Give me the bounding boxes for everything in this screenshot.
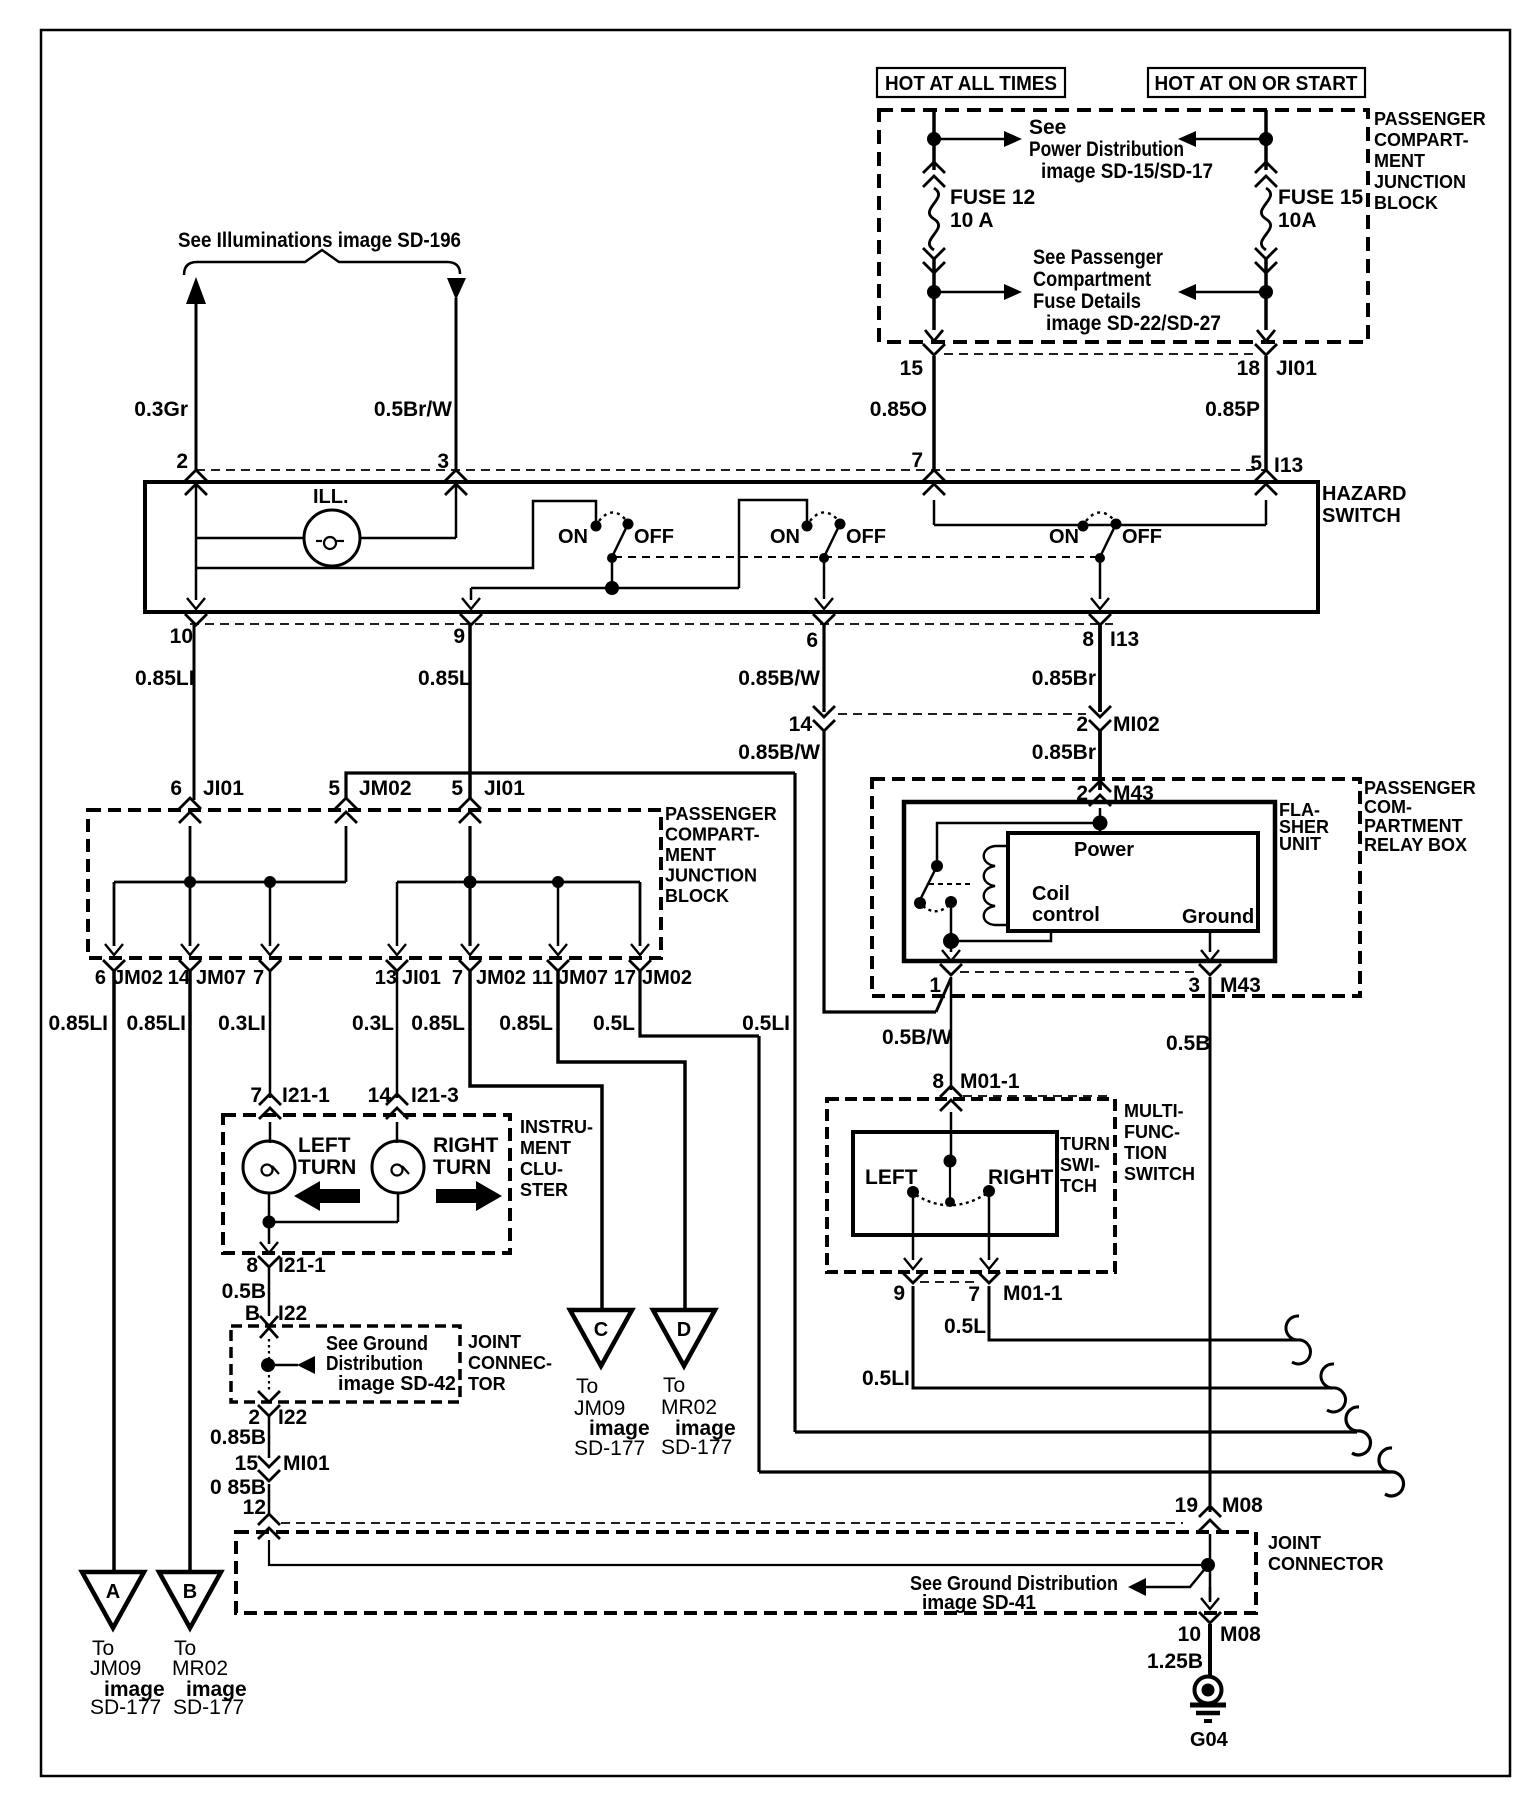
svg-text:I21-1: I21-1 — [282, 1084, 330, 1107]
svg-text:See Passenger: See Passenger — [1033, 246, 1163, 269]
svg-text:JI01: JI01 — [203, 777, 244, 800]
svg-text:MENT: MENT — [520, 1138, 571, 1158]
svg-text:0.85P: 0.85P — [1205, 398, 1260, 421]
svg-text:0.85B: 0.85B — [210, 1426, 266, 1449]
svg-text:COMPART-: COMPART- — [1374, 130, 1469, 150]
svg-text:TURN: TURN — [1060, 1134, 1110, 1154]
svg-text:image SD-15/SD-17: image SD-15/SD-17 — [1041, 160, 1213, 183]
svg-text:INSTRU-: INSTRU- — [520, 1117, 593, 1137]
svg-text:To: To — [663, 1374, 685, 1397]
svg-text:HOT AT ALL TIMES: HOT AT ALL TIMES — [885, 73, 1057, 95]
svg-text:ON: ON — [1049, 526, 1079, 548]
svg-text:0.3LI: 0.3LI — [218, 1012, 266, 1035]
svg-text:STER: STER — [520, 1180, 568, 1200]
svg-text:TCH: TCH — [1060, 1176, 1097, 1196]
svg-text:SD-177: SD-177 — [90, 1696, 161, 1719]
svg-text:0.85B/W: 0.85B/W — [738, 667, 820, 690]
svg-text:D: D — [677, 1319, 691, 1341]
svg-text:PARTMENT: PARTMENT — [1364, 816, 1463, 836]
svg-text:ON: ON — [770, 526, 800, 548]
svg-text:6: 6 — [806, 629, 818, 652]
svg-text:7: 7 — [968, 1283, 980, 1306]
svg-text:0.5B: 0.5B — [1166, 1032, 1210, 1055]
svg-text:0.85L: 0.85L — [411, 1012, 465, 1035]
svg-text:SD-177: SD-177 — [574, 1437, 645, 1460]
svg-text:2: 2 — [176, 450, 188, 473]
svg-text:0.85LI: 0.85LI — [126, 1012, 186, 1035]
svg-text:Compartment: Compartment — [1033, 268, 1151, 291]
svg-text:10: 10 — [1178, 1623, 1201, 1646]
svg-text:0.85L: 0.85L — [499, 1012, 553, 1035]
svg-text:5: 5 — [328, 777, 340, 800]
svg-text:image SD-41: image SD-41 — [922, 1592, 1036, 1614]
svg-text:RIGHT: RIGHT — [433, 1134, 499, 1157]
svg-text:JUNCTION: JUNCTION — [1374, 172, 1466, 192]
svg-text:14: 14 — [368, 1084, 392, 1107]
svg-text:12: 12 — [243, 1496, 266, 1519]
svg-text:9: 9 — [893, 1282, 905, 1305]
svg-text:JM02: JM02 — [359, 777, 412, 800]
svg-text:0.5B: 0.5B — [222, 1280, 266, 1303]
svg-text:Distribution: Distribution — [326, 1353, 423, 1375]
svg-text:image SD-42: image SD-42 — [338, 1373, 456, 1395]
svg-text:LEFT: LEFT — [865, 1166, 918, 1189]
svg-text:0.5Br/W: 0.5Br/W — [374, 398, 452, 421]
svg-text:19: 19 — [1175, 1494, 1198, 1517]
svg-text:MI02: MI02 — [1113, 713, 1160, 736]
svg-text:M08: M08 — [1220, 1623, 1261, 1646]
svg-text:MI01: MI01 — [283, 1452, 330, 1475]
svg-text:7: 7 — [911, 449, 923, 472]
svg-text:CONNECTOR: CONNECTOR — [1268, 1554, 1384, 1574]
svg-text:M01-1: M01-1 — [960, 1070, 1020, 1093]
svg-text:M01-1: M01-1 — [1003, 1282, 1063, 1305]
svg-text:OFF: OFF — [1122, 526, 1162, 548]
svg-text:1: 1 — [929, 974, 941, 997]
svg-text:8: 8 — [932, 1070, 944, 1093]
svg-text:JI01: JI01 — [1276, 357, 1317, 380]
svg-text:SWITCH: SWITCH — [1124, 1164, 1195, 1184]
svg-text:COMPART-: COMPART- — [665, 825, 760, 845]
svg-text:A: A — [106, 1581, 120, 1603]
svg-text:10: 10 — [170, 625, 193, 648]
svg-text:PASSENGER: PASSENGER — [1364, 778, 1476, 798]
svg-text:See: See — [1029, 116, 1066, 139]
svg-text:JM09: JM09 — [90, 1657, 141, 1680]
svg-text:TURN: TURN — [433, 1156, 491, 1179]
svg-text:15: 15 — [900, 357, 924, 380]
svg-text:See Illuminations image SD-196: See Illuminations image SD-196 — [178, 229, 461, 252]
svg-text:10 A: 10 A — [950, 209, 994, 232]
svg-text:0.3Gr: 0.3Gr — [134, 398, 188, 421]
svg-text:6: 6 — [170, 777, 182, 800]
svg-text:Coil: Coil — [1032, 883, 1070, 905]
svg-text:image SD-22/SD-27: image SD-22/SD-27 — [1046, 312, 1221, 335]
svg-text:CONNEC-: CONNEC- — [468, 1353, 552, 1373]
svg-text:TION: TION — [1124, 1143, 1167, 1163]
svg-text:15: 15 — [235, 1452, 259, 1475]
svg-text:SD-177: SD-177 — [173, 1696, 244, 1719]
svg-text:0.85LI: 0.85LI — [48, 1012, 108, 1035]
svg-text:14: 14 — [789, 713, 813, 736]
svg-text:COM-: COM- — [1364, 797, 1412, 817]
svg-text:1.25B: 1.25B — [1147, 1650, 1203, 1673]
svg-text:JOINT: JOINT — [468, 1332, 521, 1352]
svg-text:2: 2 — [1076, 713, 1088, 736]
svg-text:I22: I22 — [278, 1302, 307, 1325]
svg-text:BLOCK: BLOCK — [665, 886, 729, 906]
svg-text:I13: I13 — [1274, 454, 1303, 477]
svg-text:I21-3: I21-3 — [411, 1084, 459, 1107]
svg-text:ILL.: ILL. — [313, 486, 349, 508]
svg-text:Power: Power — [1074, 839, 1134, 861]
svg-text:OFF: OFF — [634, 526, 674, 548]
svg-text:JM07: JM07 — [558, 967, 608, 989]
svg-text:6: 6 — [95, 967, 106, 989]
svg-text:OFF: OFF — [846, 526, 886, 548]
svg-text:I21-1: I21-1 — [278, 1254, 326, 1277]
svg-text:Power Distribution: Power Distribution — [1029, 138, 1184, 161]
svg-text:TOR: TOR — [468, 1374, 506, 1394]
svg-text:7: 7 — [253, 967, 264, 989]
svg-text:B: B — [183, 1581, 197, 1603]
svg-text:RIGHT: RIGHT — [988, 1166, 1054, 1189]
svg-text:JM02: JM02 — [476, 967, 526, 989]
svg-text:MR02: MR02 — [172, 1657, 228, 1680]
svg-text:0.5B/W: 0.5B/W — [882, 1026, 952, 1049]
svg-text:M43: M43 — [1220, 974, 1261, 997]
svg-text:I22: I22 — [278, 1406, 307, 1429]
svg-text:HOT AT ON OR START: HOT AT ON OR START — [1155, 73, 1358, 95]
svg-text:0.85L: 0.85L — [418, 667, 472, 690]
svg-text:JM02: JM02 — [642, 967, 692, 989]
svg-text:TURN: TURN — [298, 1156, 356, 1179]
svg-text:10A: 10A — [1278, 209, 1317, 232]
svg-text:UNIT: UNIT — [1279, 834, 1321, 854]
svg-text:JM07: JM07 — [196, 967, 246, 989]
svg-text:JI01: JI01 — [484, 777, 525, 800]
svg-text:MENT: MENT — [1374, 151, 1425, 171]
svg-text:ON: ON — [558, 526, 588, 548]
svg-text:SD-177: SD-177 — [661, 1436, 732, 1459]
svg-text:JI01: JI01 — [402, 967, 441, 989]
svg-text:0.3L: 0.3L — [352, 1012, 394, 1035]
svg-text:M08: M08 — [1222, 1494, 1263, 1517]
svg-text:JOINT: JOINT — [1268, 1533, 1321, 1553]
svg-text:8: 8 — [1082, 628, 1094, 651]
svg-text:FUSE 12: FUSE 12 — [950, 186, 1035, 209]
svg-text:I13: I13 — [1110, 628, 1139, 651]
svg-text:0.5L: 0.5L — [593, 1012, 635, 1035]
svg-text:5: 5 — [451, 777, 463, 800]
svg-text:3: 3 — [1188, 974, 1200, 997]
svg-text:B: B — [245, 1302, 260, 1325]
svg-text:11: 11 — [532, 967, 553, 989]
svg-text:7: 7 — [250, 1084, 262, 1107]
svg-text:SWI-: SWI- — [1060, 1155, 1100, 1175]
svg-text:Fuse Details: Fuse Details — [1033, 290, 1141, 313]
svg-text:0.5L: 0.5L — [944, 1315, 986, 1338]
svg-text:0.85B/W: 0.85B/W — [738, 741, 820, 764]
svg-text:MR02: MR02 — [661, 1396, 717, 1419]
svg-text:HAZARD: HAZARD — [1322, 483, 1406, 505]
svg-text:JUNCTION: JUNCTION — [665, 866, 757, 886]
svg-text:FUSE 15: FUSE 15 — [1278, 186, 1364, 209]
svg-text:To: To — [576, 1375, 598, 1398]
svg-text:RELAY BOX: RELAY BOX — [1364, 835, 1467, 855]
svg-text:18: 18 — [1237, 357, 1261, 380]
svg-text:LEFT: LEFT — [298, 1134, 351, 1157]
svg-text:G04: G04 — [1190, 1729, 1229, 1751]
svg-text:SWITCH: SWITCH — [1322, 505, 1401, 527]
svg-text:13: 13 — [375, 967, 397, 989]
svg-text:PASSENGER: PASSENGER — [665, 804, 777, 824]
svg-text:0.5LI: 0.5LI — [742, 1012, 790, 1035]
svg-text:14: 14 — [168, 967, 191, 989]
svg-text:7: 7 — [452, 967, 463, 989]
svg-text:FUNC-: FUNC- — [1124, 1122, 1180, 1142]
svg-text:0.85O: 0.85O — [870, 398, 927, 421]
svg-text:MENT: MENT — [665, 845, 716, 865]
svg-text:MULTI-: MULTI- — [1124, 1101, 1184, 1121]
svg-text:9: 9 — [453, 625, 465, 648]
svg-text:PASSENGER: PASSENGER — [1374, 109, 1486, 129]
svg-text:0.5LI: 0.5LI — [862, 1367, 910, 1390]
svg-text:C: C — [594, 1319, 608, 1341]
svg-text:control: control — [1032, 904, 1100, 926]
svg-text:CLU-: CLU- — [520, 1159, 563, 1179]
svg-text:BLOCK: BLOCK — [1374, 193, 1438, 213]
svg-text:0.85Br: 0.85Br — [1032, 741, 1096, 764]
svg-text:JM02: JM02 — [113, 967, 163, 989]
svg-text:5: 5 — [1250, 452, 1262, 475]
svg-text:Ground: Ground — [1182, 906, 1254, 928]
svg-text:17: 17 — [614, 967, 636, 989]
svg-text:8: 8 — [246, 1254, 258, 1277]
svg-text:See Ground: See Ground — [326, 1333, 428, 1355]
svg-text:0.85Br: 0.85Br — [1032, 667, 1096, 690]
svg-text:0.85LI: 0.85LI — [135, 667, 195, 690]
